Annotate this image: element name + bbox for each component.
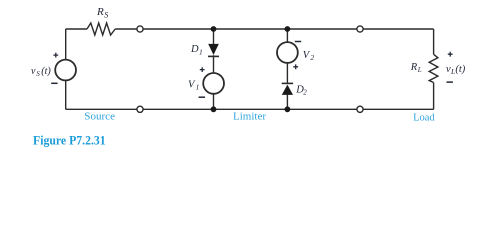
svg-text:L: L [417,66,422,74]
svg-text:Load: Load [413,113,435,124]
svg-text:D: D [190,44,199,55]
svg-text:(t): (t) [41,66,51,77]
svg-text:L: L [450,67,455,76]
svg-text:S: S [104,10,108,19]
svg-text:S: S [36,70,40,78]
svg-text:1: 1 [199,47,203,56]
svg-text:Limiter: Limiter [233,111,267,122]
svg-text:R: R [410,62,418,73]
svg-text:1: 1 [196,83,200,92]
svg-text:Figure P7.2.31: Figure P7.2.31 [33,132,106,147]
svg-text:R: R [96,6,104,18]
svg-text:(t): (t) [455,64,465,75]
svg-text:2: 2 [303,89,307,97]
svg-text:Source: Source [84,111,115,122]
svg-text:2: 2 [310,53,314,62]
